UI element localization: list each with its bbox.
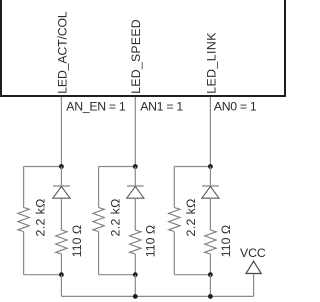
junction node bottom group 1 xyxy=(59,272,64,277)
resistor 110 ohm group 2 xyxy=(130,230,141,254)
resistor 110 ohm group 3 xyxy=(205,230,216,254)
wire bottom node to bus group 2 xyxy=(134,275,136,297)
wire bottom node to bus group 3 xyxy=(209,275,211,297)
wire node to diode D2 xyxy=(134,167,136,187)
wire bottom bus xyxy=(61,295,253,297)
wire top connector group 2 xyxy=(99,166,136,168)
resistor 2.2 kohm group 1 xyxy=(18,208,29,232)
wire net AN_EN from box to node xyxy=(60,97,62,167)
svg-text:2.2 kΩ: 2.2 kΩ xyxy=(109,198,123,236)
svg-text:AN1 = 1: AN1 = 1 xyxy=(140,100,183,114)
wire diode to resistor xyxy=(134,198,136,230)
svg-text:LED_SPEED: LED_SPEED xyxy=(129,19,143,94)
left branch wire to bottom connector xyxy=(173,232,175,275)
left branch wire down group 3 xyxy=(173,167,175,208)
wire resistor to bottom node xyxy=(209,254,211,275)
junction node bus group 2 xyxy=(133,294,138,299)
resistor 2.2 kohm group 2 xyxy=(93,208,104,232)
power symbol VCC xyxy=(246,261,261,273)
wire bus to VCC symbol xyxy=(253,274,255,297)
svg-text:LED_LINK: LED_LINK xyxy=(204,32,218,94)
wire net AN1 from box to node xyxy=(134,97,136,167)
wire bottom connector group 3 xyxy=(174,274,210,276)
wire bottom connector group 2 xyxy=(99,274,136,276)
wire diode to resistor xyxy=(209,198,211,230)
wire node to diode D3 xyxy=(209,167,211,187)
resistor 110 ohm group 1 xyxy=(56,230,67,254)
svg-text:LED_ACT/COL: LED_ACT/COL xyxy=(55,11,69,94)
junction node top group 1 xyxy=(59,164,64,169)
wire bottom connector group 1 xyxy=(24,274,62,276)
wire diode to resistor xyxy=(60,198,62,230)
diode D2 xyxy=(127,186,144,198)
wire top connector group 3 xyxy=(174,166,210,168)
svg-text:110 Ω: 110 Ω xyxy=(219,225,233,257)
svg-text:110 Ω: 110 Ω xyxy=(70,225,84,257)
IC box U1 xyxy=(1,0,285,96)
wire node to diode D1 xyxy=(60,167,62,187)
svg-text:2.2 kΩ: 2.2 kΩ xyxy=(184,198,198,236)
left branch wire to bottom connector xyxy=(98,232,100,275)
svg-text:110 Ω: 110 Ω xyxy=(144,225,158,257)
left branch wire down group 2 xyxy=(98,167,100,208)
junction node bus group 3 xyxy=(208,294,213,299)
wire resistor to bottom node xyxy=(60,254,62,275)
junction node bottom group 2 xyxy=(133,272,138,277)
wire resistor to bottom node xyxy=(134,254,136,275)
svg-text:VCC: VCC xyxy=(240,246,266,260)
wire top connector group 1 xyxy=(24,166,62,168)
junction node top group 2 xyxy=(133,164,138,169)
diode D1 xyxy=(53,186,70,198)
left branch wire to bottom connector xyxy=(23,232,25,275)
wire bottom node to bus group 1 xyxy=(60,275,62,297)
resistor 2.2 kohm group 3 xyxy=(169,208,180,232)
svg-text:AN_EN = 1: AN_EN = 1 xyxy=(66,100,126,114)
svg-text:2.2 kΩ: 2.2 kΩ xyxy=(34,198,48,236)
diode D3 xyxy=(202,186,219,198)
wire net AN0 from box to node xyxy=(209,97,211,167)
left branch wire down group 1 xyxy=(23,167,25,208)
junction node top group 3 xyxy=(208,164,213,169)
junction node bottom group 3 xyxy=(208,272,213,277)
svg-text:AN0 = 1: AN0 = 1 xyxy=(214,100,257,114)
